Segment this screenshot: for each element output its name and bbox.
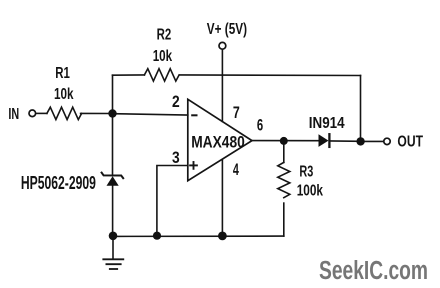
resistor R2: [144, 69, 179, 81]
junction node B: [280, 137, 288, 145]
wire node A up to R2 branch: [112, 75, 114, 113]
resistor R1: [47, 107, 82, 119]
ground: [103, 259, 123, 269]
svg-text:100k: 100k: [297, 183, 323, 200]
wire R2 right to feedback corner: [179, 74, 360, 77]
zener diode HP5062-2909 anode triangle: [107, 176, 119, 186]
svg-text:IN: IN: [8, 106, 19, 123]
diode D1 IN914 anode triangle: [319, 134, 329, 147]
node IN terminal: [29, 110, 36, 117]
svg-text:R3: R3: [299, 163, 313, 180]
op-amp minus sign pin 2: [192, 114, 196, 116]
svg-text:R1: R1: [55, 65, 70, 82]
wire node A down to zener: [112, 114, 114, 176]
op-amp U1 MAX480: [188, 99, 252, 180]
svg-text:2: 2: [172, 93, 180, 111]
wire zener to bottom rail: [112, 186, 114, 237]
svg-text:7: 7: [233, 104, 240, 122]
ground stub: [112, 240, 114, 259]
junction zener-ground: [109, 232, 118, 241]
svg-text:SeekIC.com: SeekIC.com: [319, 257, 428, 285]
wire node A to op-amp pin 2: [113, 114, 188, 115]
wire node C to OUT terminal: [364, 140, 384, 142]
wire output: apex to node B to diode: [252, 140, 319, 142]
svg-text:MAX480: MAX480: [191, 133, 245, 151]
wire op-amp pin 4 to ground rail: [221, 160, 223, 236]
zener diode HP5062-2909 cathode bar: [102, 173, 124, 179]
svg-text:OUT: OUT: [397, 134, 423, 151]
svg-text:10k: 10k: [54, 86, 74, 103]
junction node A: [108, 109, 116, 117]
svg-text:R2: R2: [157, 27, 172, 44]
svg-text:10k: 10k: [153, 48, 172, 65]
svg-text:3: 3: [172, 149, 180, 167]
wire R3 bottom lead: [283, 203, 285, 236]
wire V+ to op-amp pin 7: [221, 50, 223, 122]
svg-text:V+ (5V): V+ (5V): [207, 21, 247, 38]
node OUT terminal: [384, 138, 390, 144]
wire bottom ground rail: [113, 235, 284, 237]
wire R2 left lead: [113, 74, 145, 76]
svg-text:6: 6: [257, 117, 263, 135]
svg-text:HP5062-2909: HP5062-2909: [21, 173, 96, 193]
resistor R3: [278, 162, 290, 197]
junction pin3-rail: [153, 232, 161, 240]
junction node C: [356, 137, 364, 145]
wire IN to R1: [36, 112, 47, 114]
wire R3 top lead: [283, 141, 285, 163]
junction pin4-rail: [218, 232, 227, 241]
node V+ terminal: [219, 42, 226, 49]
svg-text:4: 4: [233, 161, 240, 179]
op-amp plus sign pin 3: [190, 162, 197, 169]
svg-text:IN914: IN914: [309, 115, 345, 132]
wire feedback vertical down to node C: [360, 76, 362, 142]
diode D1 IN914 cathode bar: [328, 134, 330, 147]
wire op-amp pin 3 lead: [157, 166, 188, 236]
wire R1 to node A: [81, 112, 113, 114]
wire diode to node C: [329, 140, 360, 142]
